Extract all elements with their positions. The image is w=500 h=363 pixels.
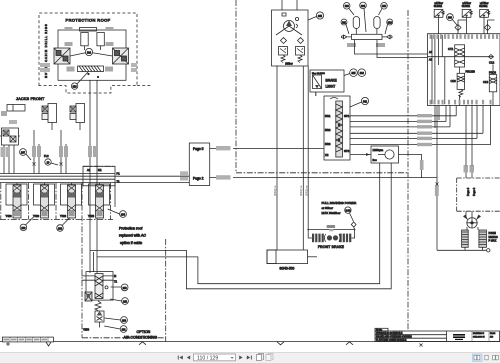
svg-text:Page 8: Page 8 [472, 187, 476, 196]
svg-text:110: 110 [490, 337, 493, 339]
svg-text:PARKI: PARKI [489, 232, 497, 235]
svg-text:FRONT BRAKE: FRONT BRAKE [318, 245, 345, 249]
svg-text:M: M [114, 274, 116, 278]
svg-text:243: 243 [345, 209, 350, 213]
svg-text:200bar: 200bar [285, 63, 293, 66]
svg-text:311: 311 [342, 21, 346, 24]
svg-text:PLATFORM CABIN MODULE: PLATFORM CABIN MODULE [376, 339, 407, 342]
svg-text:option if cabin: option if cabin [120, 241, 142, 245]
svg-text:302: 302 [363, 101, 368, 104]
svg-text:9852 2990 05: 9852 2990 05 [473, 337, 485, 339]
svg-text:MAX 80±5bar: MAX 80±5bar [322, 211, 341, 215]
svg-text:P1: P1 [117, 172, 121, 176]
svg-text:GL8321: GL8321 [434, 6, 443, 8]
svg-text:CT1: CT1 [448, 47, 454, 51]
svg-text:BR2: BR2 [325, 128, 331, 132]
svg-text:X2: X2 [325, 153, 329, 157]
svg-text:(BR1)ne: (BR1)ne [299, 185, 303, 196]
svg-text:BR1: BR1 [325, 114, 331, 118]
svg-text:314: 314 [87, 52, 92, 55]
svg-text:310: 310 [388, 21, 393, 24]
svg-text:HYDRAULIC SCHEDULE: HYDRAULIC SCHEDULE [376, 332, 403, 335]
svg-text:PRC2/B: PRC2/B [466, 70, 476, 74]
svg-text:303: 303 [345, 5, 350, 8]
svg-text:Y156: Y156 [83, 328, 90, 332]
svg-text:Page 5: Page 5 [193, 147, 204, 151]
svg-text:C10: C10 [451, 79, 457, 83]
svg-text:261: 261 [122, 329, 127, 332]
svg-text:(BR3)ne: (BR3)ne [304, 185, 308, 196]
svg-text:≥170bar: ≥170bar [435, 2, 444, 5]
svg-text:315: 315 [352, 72, 357, 75]
svg-text:SP1: SP1 [344, 114, 350, 118]
svg-text:EMERG: EMERG [489, 236, 498, 239]
svg-text:PROTECTION ROOF: PROTECTION ROOF [66, 18, 111, 23]
svg-text:110 / 129: 110 / 129 [197, 356, 218, 362]
svg-text:P MAX: P MAX [489, 240, 497, 243]
svg-text:230: 230 [58, 228, 63, 231]
svg-text:Protection roof: Protection roof [119, 227, 142, 231]
svg-text:M1: M1 [98, 168, 102, 172]
svg-text:at 60bar: at 60bar [322, 206, 333, 210]
svg-text:C12: C12 [489, 61, 495, 65]
svg-text:SP2: SP2 [344, 149, 350, 153]
svg-text:C13: C13 [483, 80, 489, 84]
svg-text:PAGE: PAGE [490, 332, 496, 335]
svg-text:237: 237 [21, 152, 26, 155]
svg-text:OPTION: OPTION [137, 330, 151, 334]
svg-text:replaced with AC: replaced with AC [119, 234, 146, 238]
svg-text:BRAKE: BRAKE [326, 79, 338, 83]
svg-text:313: 313 [73, 86, 78, 89]
svg-text:Y423: Y423 [6, 214, 13, 218]
svg-text:234: 234 [121, 214, 126, 217]
svg-text:(BR2)ne: (BR2)ne [273, 185, 277, 196]
svg-text:DRAWING N: DRAWING N [473, 332, 485, 335]
svg-text:T1: T1 [114, 280, 118, 284]
svg-text:T1: T1 [117, 180, 121, 184]
svg-text:FD 8kg: FD 8kg [376, 330, 382, 332]
svg-text:A1: A1 [87, 168, 91, 172]
svg-text:1200rpm: 1200rpm [373, 148, 384, 152]
svg-text:304: 304 [361, 5, 366, 8]
svg-text:5bar GL8306: 5bar GL8306 [312, 72, 326, 75]
svg-text:260: 260 [122, 320, 127, 323]
svg-text:BRAKE AND STEERING SYSTEM: BRAKE AND STEERING SYSTEM [376, 336, 412, 339]
svg-text:230: 230 [21, 227, 26, 230]
svg-text:23: 23 [47, 162, 50, 165]
svg-text:JACKS FRONT: JACKS FRONT [16, 97, 45, 101]
svg-text:262: 262 [123, 301, 128, 304]
svg-text:Page 2: Page 2 [193, 177, 204, 181]
svg-text:80/40-500: 80/40-500 [280, 267, 295, 271]
svg-text:PL6: PL6 [44, 154, 49, 158]
svg-text:316: 316 [360, 72, 365, 75]
svg-text:BR3: BR3 [325, 142, 331, 146]
svg-text:AIR CONDITIONING: AIR CONDITIONING [124, 335, 158, 339]
svg-text:303: 303 [382, 5, 387, 8]
svg-text:8cc: 8cc [373, 158, 378, 162]
svg-text:FULL BRAKING POWER: FULL BRAKING POWER [322, 201, 358, 205]
svg-text:305: 305 [318, 15, 323, 18]
svg-text:263: 263 [123, 287, 128, 290]
svg-text:LIGHT: LIGHT [326, 85, 336, 89]
svg-text:Page 3: Page 3 [466, 187, 470, 196]
svg-text:398: 398 [448, 17, 453, 20]
